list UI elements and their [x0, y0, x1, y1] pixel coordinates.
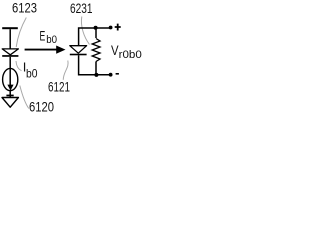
svg-text:6123: 6123	[12, 0, 37, 15]
ground triangle	[2, 98, 18, 108]
junction dot resistor bottom	[94, 73, 98, 77]
svg-text:b0: b0	[46, 34, 57, 46]
resistor R bottom stub	[95, 62, 97, 75]
svg-text:6231: 6231	[70, 0, 93, 16]
terminal bar top left	[2, 27, 18, 29]
arrow Eb0	[25, 49, 57, 51]
svg-text:E: E	[40, 27, 46, 43]
wire: current source to ground	[9, 91, 11, 98]
diode D1 (cathode down)	[2, 49, 18, 55]
leader from 6123 to diode	[16, 18, 26, 48]
diode D2 cathode bar	[70, 54, 87, 56]
resistor R top stub	[95, 28, 97, 38]
svg-text:6120: 6120	[29, 99, 54, 115]
resistor R zigzag	[92, 39, 100, 62]
svg-text:6121: 6121	[48, 79, 70, 95]
diode D1 cathode bar	[2, 55, 18, 57]
current source Ib0 ellipse	[3, 68, 18, 90]
wire: top of right component	[79, 28, 111, 46]
diode D2 (cathode down)	[70, 46, 87, 54]
current source arrow line	[9, 68, 11, 86]
ground bar	[6, 95, 13, 97]
current source arrowhead	[7, 85, 13, 91]
terminal dot minus	[109, 73, 113, 77]
wire: diode D1 to current source	[9, 57, 11, 69]
leader from Ib0 to source	[16, 61, 22, 71]
junction dot resistor top	[94, 26, 98, 30]
terminal dot plus	[109, 26, 113, 30]
wire: terminal to diode D1	[9, 29, 11, 49]
svg-text:b0: b0	[26, 67, 38, 81]
leader from 6231 to resistor	[81, 17, 89, 45]
wire: diode D2 to bottom	[79, 55, 111, 75]
minus sign	[116, 73, 119, 75]
plus sign	[115, 24, 121, 31]
svg-text:r0b0: r0b0	[119, 49, 142, 61]
leader from 6120 to ground	[20, 86, 29, 109]
leader from 6121 to bottom wire	[63, 61, 68, 80]
